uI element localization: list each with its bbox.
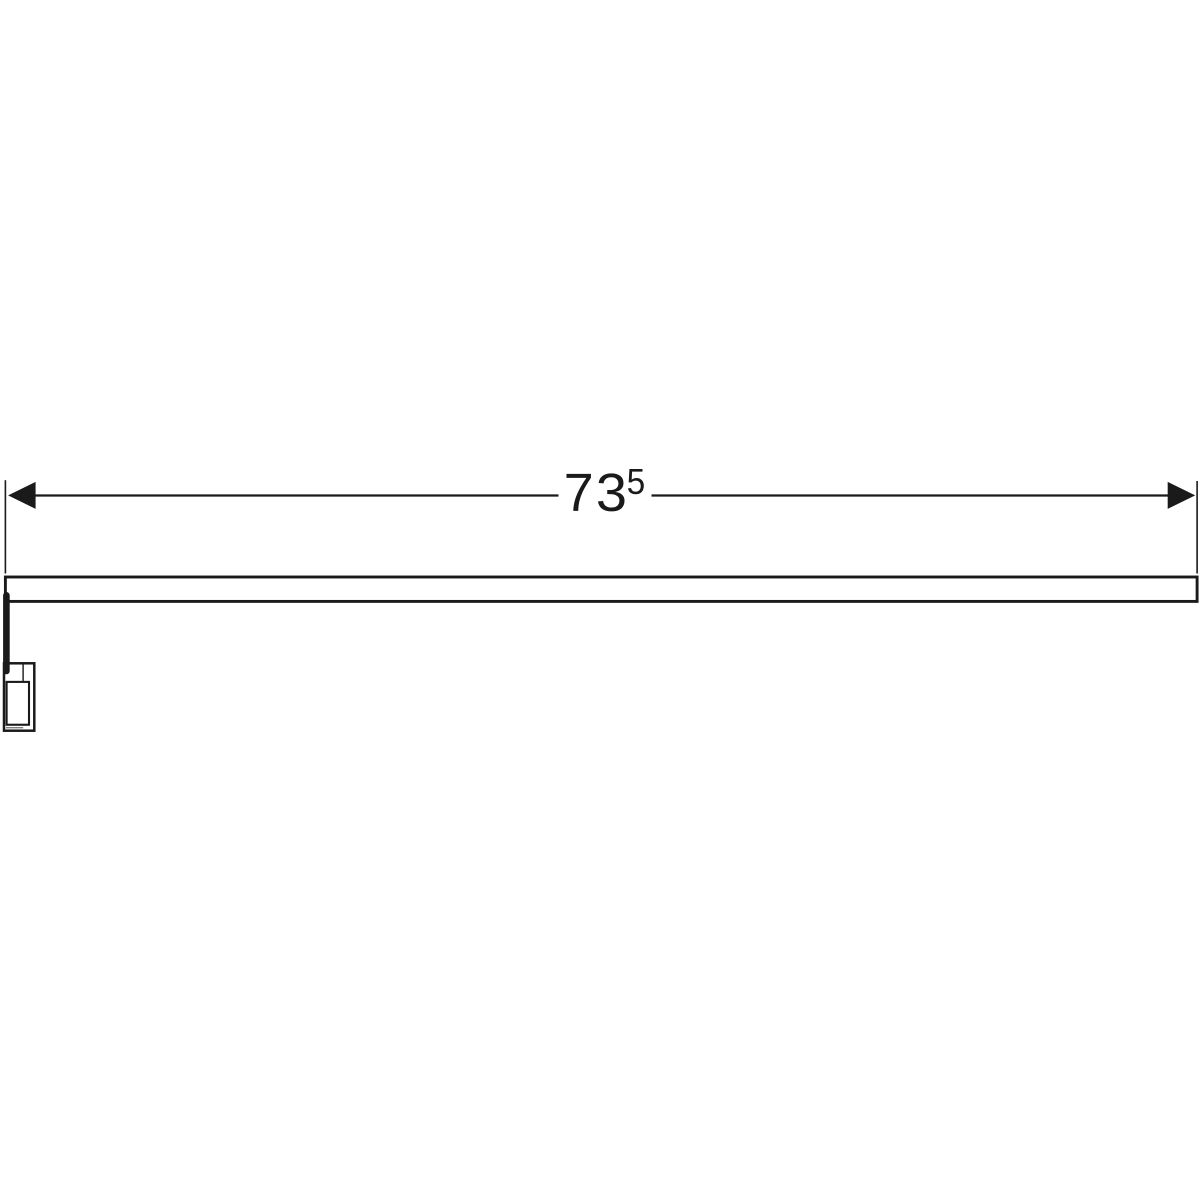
clamp inner rectangle <box>7 682 29 725</box>
clamp divider line <box>22 665 24 682</box>
bar outline <box>5 577 1197 601</box>
dimension line right segment <box>652 494 1186 496</box>
clamp outer rectangle <box>4 663 34 730</box>
dimension line left segment <box>20 494 559 496</box>
dimension superscript digit 5 <box>628 469 644 494</box>
right extension line <box>1196 481 1198 574</box>
left arrowhead <box>8 482 35 509</box>
glass panel thick line <box>3 595 10 671</box>
clamp gasket grey line <box>6 727 23 729</box>
dimension text digit 3 <box>598 473 625 511</box>
right arrowhead <box>1168 482 1196 509</box>
dimension text digit 7 <box>566 474 590 511</box>
left extension line <box>4 480 6 573</box>
